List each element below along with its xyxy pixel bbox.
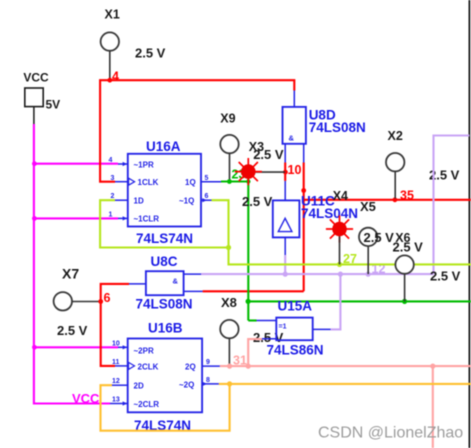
junction net31 dots xyxy=(227,364,435,369)
flip-flop U16A 74LS74N xyxy=(109,139,222,246)
svg-text:27: 27 xyxy=(343,252,357,266)
junction net35 dots xyxy=(301,188,306,193)
svg-text:CSDN @LionelZhao: CSDN @LionelZhao xyxy=(318,425,463,442)
junction net12 dots xyxy=(283,272,371,277)
svg-text:74LS08N: 74LS08N xyxy=(309,120,366,135)
svg-text:X1: X1 xyxy=(105,8,120,22)
wire net 31 (pink) U16B 2Q / X8 / U15A in2 xyxy=(220,339,471,448)
probe X6 xyxy=(393,231,461,301)
svg-text:74LS86N: 74LS86N xyxy=(267,343,324,358)
svg-text:1CLK: 1CLK xyxy=(138,178,159,187)
svg-text:2CLK: 2CLK xyxy=(138,362,159,371)
svg-text:X2: X2 xyxy=(388,129,403,143)
svg-text:12: 12 xyxy=(112,378,120,385)
probe X5 xyxy=(359,199,394,274)
wire net 10 (red) U8D input to X3 junction and U11C xyxy=(284,163,286,181)
flip-flop U16B 74LS74N xyxy=(110,320,220,433)
wire net (orange) U16B ~2Q feedback to 2D and right xyxy=(101,384,471,431)
svg-text:1Q: 1Q xyxy=(185,178,196,187)
svg-text:2D: 2D xyxy=(134,381,144,390)
svg-text:2.5 V: 2.5 V xyxy=(430,269,461,284)
svg-text:10: 10 xyxy=(288,163,302,177)
probe X7 xyxy=(54,265,100,338)
probe X1 xyxy=(101,8,166,79)
svg-text:~1CLR: ~1CLR xyxy=(134,215,160,224)
svg-text:2.5 V: 2.5 V xyxy=(242,194,273,209)
AND gate U8C 74LS08N xyxy=(129,254,203,312)
wire net 23 (green) U16A 1Q to X3, U15A, X6 xyxy=(221,172,471,321)
svg-text:U15A: U15A xyxy=(278,298,313,313)
junction net4 dot xyxy=(107,78,112,83)
svg-text:9: 9 xyxy=(206,359,210,366)
svg-text:~1Q: ~1Q xyxy=(179,196,194,205)
svg-text:6: 6 xyxy=(104,291,111,305)
svg-text:4: 4 xyxy=(109,157,113,164)
svg-text:1: 1 xyxy=(109,211,113,218)
svg-text:2.5 V: 2.5 V xyxy=(135,46,166,61)
svg-text:2.5 V: 2.5 V xyxy=(364,230,395,245)
svg-text:X5: X5 xyxy=(360,199,376,214)
svg-text:5: 5 xyxy=(205,175,209,182)
svg-text:VCC: VCC xyxy=(23,70,49,84)
svg-text:&: & xyxy=(173,276,179,285)
svg-text:74LS04N: 74LS04N xyxy=(301,206,358,221)
AND gate U8D 74LS08N xyxy=(283,91,366,163)
svg-text:74LS08N: 74LS08N xyxy=(136,297,193,312)
svg-text:U8C: U8C xyxy=(151,254,178,269)
sheet border xyxy=(468,0,470,448)
svg-text:=1: =1 xyxy=(279,323,287,330)
svg-text:~2PR: ~2PR xyxy=(134,346,154,355)
svg-text:5V: 5V xyxy=(46,98,61,112)
svg-text:8: 8 xyxy=(206,377,210,384)
svg-text:U16B: U16B xyxy=(148,320,183,335)
wire net 12 (lavender) U8C in / U11C out / U15A out / X5 xyxy=(201,136,469,330)
junction net6 dot xyxy=(98,299,103,304)
svg-text:3: 3 xyxy=(111,175,115,182)
wire net 35 (red) U8D output down and right xyxy=(203,163,471,292)
probe X8 xyxy=(220,295,283,366)
probe X9 xyxy=(220,111,238,180)
svg-text:X9: X9 xyxy=(220,111,235,125)
svg-text:74LS74N: 74LS74N xyxy=(136,231,193,246)
svg-text:1D: 1D xyxy=(134,196,144,205)
svg-text:X4: X4 xyxy=(333,189,348,203)
svg-text:X8: X8 xyxy=(221,295,237,310)
inverter U11C 74LS04N xyxy=(273,181,358,255)
wire VCC net (magenta) xyxy=(34,124,118,404)
svg-text:~2Q: ~2Q xyxy=(179,380,194,389)
svg-text:31: 31 xyxy=(233,353,247,367)
svg-text:6: 6 xyxy=(205,193,209,200)
svg-text:&: & xyxy=(289,134,295,143)
junction net27 dots xyxy=(226,245,342,267)
probe X3 LED lit xyxy=(235,140,284,185)
wire X3 to net10 (black) xyxy=(256,171,286,173)
svg-text:35: 35 xyxy=(400,189,414,203)
junction orange dot xyxy=(227,381,232,386)
svg-text:2.5 V: 2.5 V xyxy=(393,240,424,255)
probe X4 LED lit xyxy=(242,189,353,265)
svg-text:10: 10 xyxy=(112,340,120,347)
svg-text:X7: X7 xyxy=(62,265,79,281)
XOR gate U15A 74LS86N xyxy=(257,298,331,357)
svg-text:~1PR: ~1PR xyxy=(134,160,154,169)
power source VCC xyxy=(23,70,60,124)
svg-text:2.5 V: 2.5 V xyxy=(253,147,284,162)
svg-text:2Q: 2Q xyxy=(185,362,196,371)
svg-text:2.5 V: 2.5 V xyxy=(57,323,88,338)
junction net10 dot xyxy=(283,170,288,175)
svg-text:13: 13 xyxy=(112,397,120,404)
wire net 6 (red) X7 / U8C out / U16B 2CLK xyxy=(101,284,129,366)
junction VCC dots xyxy=(32,161,37,349)
probe X2 xyxy=(386,129,460,199)
svg-text:~2CLR: ~2CLR xyxy=(134,400,160,409)
wire net 4 (red) X1 to U8D top and U16A 1CLK xyxy=(100,80,294,182)
svg-text:11: 11 xyxy=(112,359,120,366)
svg-text:VCC: VCC xyxy=(72,391,100,406)
svg-text:4: 4 xyxy=(112,70,119,84)
wire net 27 (chartreuse) U16A ~1Q,1D to X4 and right xyxy=(100,200,471,264)
junction net23 dots xyxy=(227,179,407,304)
svg-text:U16A: U16A xyxy=(146,139,181,154)
